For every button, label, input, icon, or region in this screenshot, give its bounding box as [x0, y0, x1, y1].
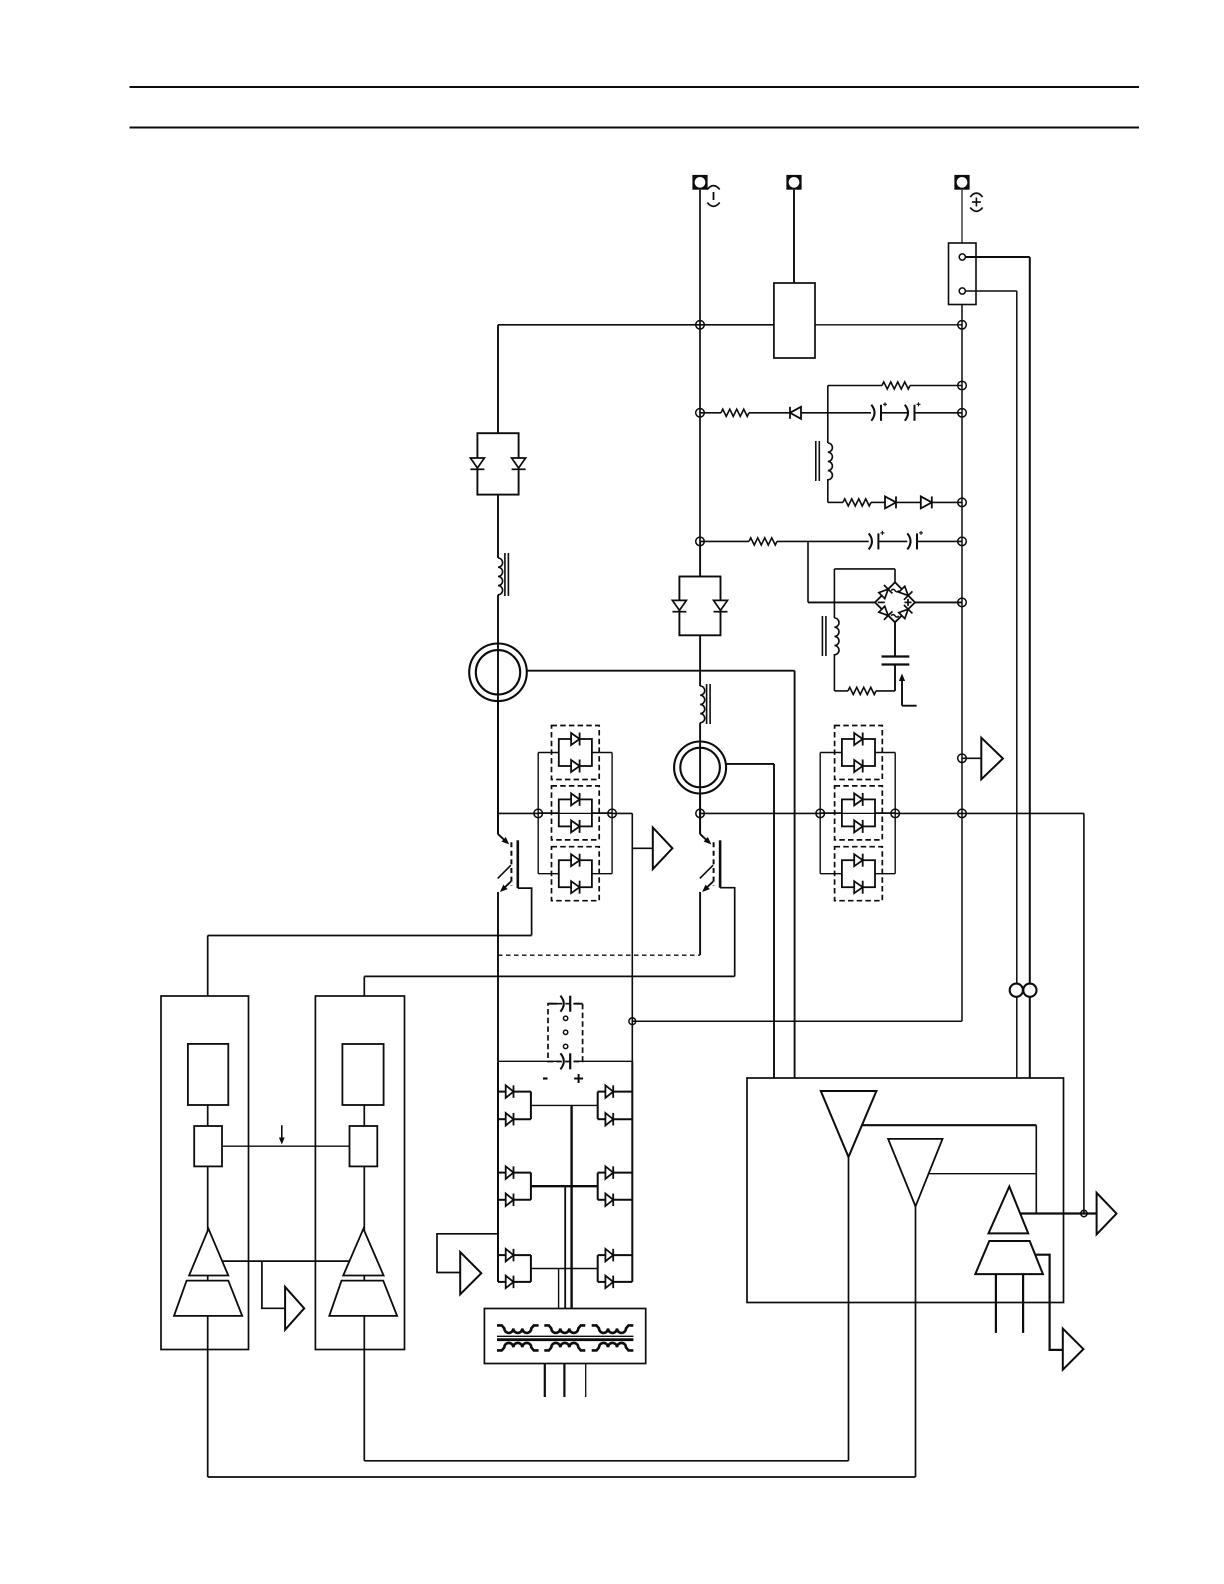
wire DS1 output drop	[631, 813, 633, 1061]
terminal TM2 stud	[786, 175, 801, 283]
T1 secondary leads	[545, 1364, 586, 1398]
driver link wire	[222, 1260, 349, 1262]
wire bridge top loop	[834, 569, 895, 691]
amp U3 triangle	[989, 1187, 1029, 1234]
connector CN1 pin 2	[959, 288, 965, 294]
diode stack DS1 cell 1	[552, 726, 600, 780]
capacitor bank bottom cap	[560, 1053, 570, 1069]
capacitor C13	[869, 531, 908, 550]
PCB1 driver triangle	[189, 1229, 228, 1276]
capacitor C14	[907, 531, 962, 550]
diode stack DS2 rails	[820, 753, 895, 874]
wire snubber y502 w resistor	[828, 499, 885, 506]
connector CN1 pin 1	[959, 254, 965, 260]
PCB2 driver triangle	[343, 1229, 383, 1276]
Q1 gate drive wire	[208, 936, 532, 997]
wire L2 to CT2	[699, 723, 701, 834]
bridge rectifier DB1	[875, 582, 915, 622]
inductor L3	[816, 441, 833, 481]
rectifier right bus	[631, 1061, 633, 1282]
tap wire row 2	[531, 1186, 598, 1308]
rectifier diodes left row 3	[498, 1249, 531, 1288]
wire top bus y325 right	[815, 324, 962, 326]
rectifier diodes left row 2	[498, 1166, 531, 1206]
T1 core	[497, 1336, 633, 1339]
T1 primary winding c	[592, 1325, 634, 1333]
module M1 diode b	[512, 458, 526, 469]
U4 sense pins	[996, 1274, 1023, 1333]
Q2 gate drive wire	[364, 976, 734, 996]
T1 primary winding a	[497, 1325, 539, 1333]
node	[958, 381, 967, 390]
wire snubber drop x828	[827, 386, 829, 503]
PCB1 wire	[207, 1105, 209, 1477]
rectifier diodes left row 1	[498, 1085, 531, 1125]
buffer arrow A2 feed	[962, 757, 981, 759]
node	[696, 409, 705, 418]
PCB2 block A	[342, 1044, 383, 1105]
header rule 2	[130, 127, 1140, 129]
inline connector circles	[1010, 984, 1037, 997]
wire CT1 to IGBT Q1	[497, 701, 499, 834]
wire bridge bottom	[894, 622, 896, 656]
wire M2 to L2	[699, 635, 701, 686]
PCB2 driver trapezoid	[329, 1281, 397, 1316]
wire M1 to L1	[497, 495, 499, 558]
Q1 emitter wire	[497, 892, 499, 1061]
diode stack DS1 cell 3	[552, 847, 600, 901]
adjustment arrow at C15	[899, 674, 917, 706]
wire right rail x962	[632, 305, 962, 1022]
wire mid bus left	[498, 812, 632, 814]
shunt block	[774, 283, 815, 358]
node	[608, 809, 617, 818]
node	[958, 409, 967, 418]
node	[696, 321, 705, 330]
buffer arrow A2	[981, 738, 1003, 780]
module M1 body	[477, 325, 518, 495]
diode stack DS2 cell 2	[835, 786, 883, 840]
arrow A3 feed	[262, 1261, 285, 1308]
connector CN1 wiring	[965, 257, 1029, 1078]
Q2 gate bracket	[720, 888, 735, 977]
diode stack DS1 rails	[538, 753, 612, 874]
buffer arrow A1 feed	[632, 847, 653, 849]
down arrow	[279, 1125, 285, 1144]
rectifier diodes right row 2	[598, 1166, 633, 1206]
terminal TM3 (+) stud	[954, 175, 969, 243]
U4 output wire	[1036, 1255, 1063, 1350]
node	[891, 809, 900, 818]
node	[534, 809, 543, 818]
T1 secondary winding c	[592, 1343, 634, 1350]
capacitor bank top cap	[548, 996, 583, 1012]
inductor L2	[700, 684, 710, 724]
control board box	[747, 1078, 1064, 1303]
wire CT2 sense	[726, 764, 774, 1078]
connector CN1 block	[949, 243, 977, 305]
tap wire row 3	[531, 1269, 598, 1309]
PCB1 driver trapezoid	[174, 1281, 242, 1316]
U1 output wire	[862, 1125, 1036, 1213]
node	[958, 498, 967, 507]
diode D13	[921, 496, 962, 508]
rectifier diodes right row 1	[598, 1085, 633, 1125]
node	[816, 809, 825, 818]
label minus	[543, 1077, 548, 1079]
header rule 1	[130, 86, 1140, 88]
amp U4 trapezoid	[975, 1241, 1043, 1274]
node	[958, 754, 967, 763]
PCB2 wire	[363, 1105, 365, 1461]
gate board PCB2	[315, 996, 404, 1350]
arrow A4 bracket	[437, 1234, 498, 1273]
U1 apex drive wire	[848, 1157, 850, 1461]
node	[958, 537, 967, 546]
U3 output wire	[1020, 1212, 1096, 1214]
rectifier diodes right row 3	[598, 1249, 633, 1288]
main transformer T1 box	[484, 1309, 645, 1364]
module M2 diode a	[672, 600, 686, 611]
transistor Q1	[498, 834, 518, 892]
capacitor C12	[905, 402, 962, 421]
Q2 emitter wire	[699, 892, 701, 955]
node	[696, 809, 705, 818]
node	[696, 537, 705, 546]
node	[958, 809, 967, 818]
amp U1 triangle	[821, 1091, 877, 1157]
Q1 gate bracket	[518, 888, 532, 935]
wire CT2 to IGBT Q2	[699, 794, 701, 835]
diode D11	[790, 407, 871, 419]
bottom drive bus 2	[208, 1476, 916, 1478]
capacitor bank dots	[563, 1016, 567, 1049]
node U3 output circle	[1081, 1210, 1087, 1216]
U2 apex drive wire	[915, 1206, 917, 1477]
PCB1 block A	[188, 1044, 228, 1105]
node right rail / rect bus circle	[629, 1018, 636, 1025]
bus link y1061	[498, 1060, 632, 1062]
module M2 body	[679, 541, 720, 635]
wire cap to resistor loop	[834, 665, 895, 695]
terminal TM1 (-) stud	[692, 175, 707, 325]
capacitor bank dashed box	[548, 1004, 583, 1062]
wire mid bus right	[700, 812, 1084, 814]
emitter link dashed	[498, 954, 700, 956]
U2 output wire	[929, 1173, 1037, 1175]
wire snubber y541 w resistor	[700, 538, 869, 545]
inductor L4	[822, 616, 839, 656]
T1 primary winding b	[544, 1325, 585, 1333]
wire CT1 sense	[527, 671, 795, 1078]
arrow A5	[1097, 1193, 1117, 1235]
label plus	[574, 1074, 583, 1083]
CT2 ring	[674, 742, 726, 794]
inductor L1	[498, 553, 508, 596]
node	[958, 598, 967, 607]
module M1 diode a	[470, 458, 484, 469]
diode D12	[885, 496, 921, 508]
wire snubber y413 w resistor	[700, 409, 790, 416]
amp U2 triangle	[888, 1139, 942, 1207]
PCB1 block B	[194, 1126, 222, 1166]
wire snubber y385	[828, 382, 962, 389]
polarity marker (-)	[707, 186, 719, 207]
rectifier left bus	[497, 1061, 499, 1282]
buffer arrow A1	[653, 828, 673, 870]
wire bridge out right	[915, 601, 962, 603]
feedback drop x1084	[1083, 813, 1085, 1213]
PCB2 block B	[350, 1126, 378, 1166]
diode stack DS1 cell 2	[552, 786, 600, 840]
gate board PCB1	[161, 996, 249, 1350]
wire bridge feed	[808, 541, 875, 602]
diode stack DS2 cell 1	[835, 726, 883, 780]
tap wire row 1	[531, 1105, 598, 1308]
module M2 diode b	[714, 600, 728, 611]
bottom drive bus 1	[364, 1460, 848, 1462]
wire L1 to CT1	[497, 595, 499, 834]
T1 secondary winding a	[497, 1343, 539, 1350]
diode stack DS2 cell 3	[835, 847, 883, 901]
node	[958, 321, 967, 330]
polarity marker (+)	[970, 193, 982, 211]
wire top bus y325 left	[498, 324, 774, 326]
CT1 ring	[469, 644, 527, 702]
T1 secondary winding b	[544, 1343, 585, 1350]
arrow A4	[460, 1252, 481, 1294]
arrow A6	[1063, 1329, 1084, 1370]
transistor Q2	[700, 834, 720, 892]
capacitor C11	[871, 402, 908, 421]
interlock wire	[222, 1145, 350, 1147]
arrow A3	[285, 1287, 304, 1330]
wire left rail x700	[699, 325, 701, 542]
capacitor C15 plates	[882, 657, 910, 665]
